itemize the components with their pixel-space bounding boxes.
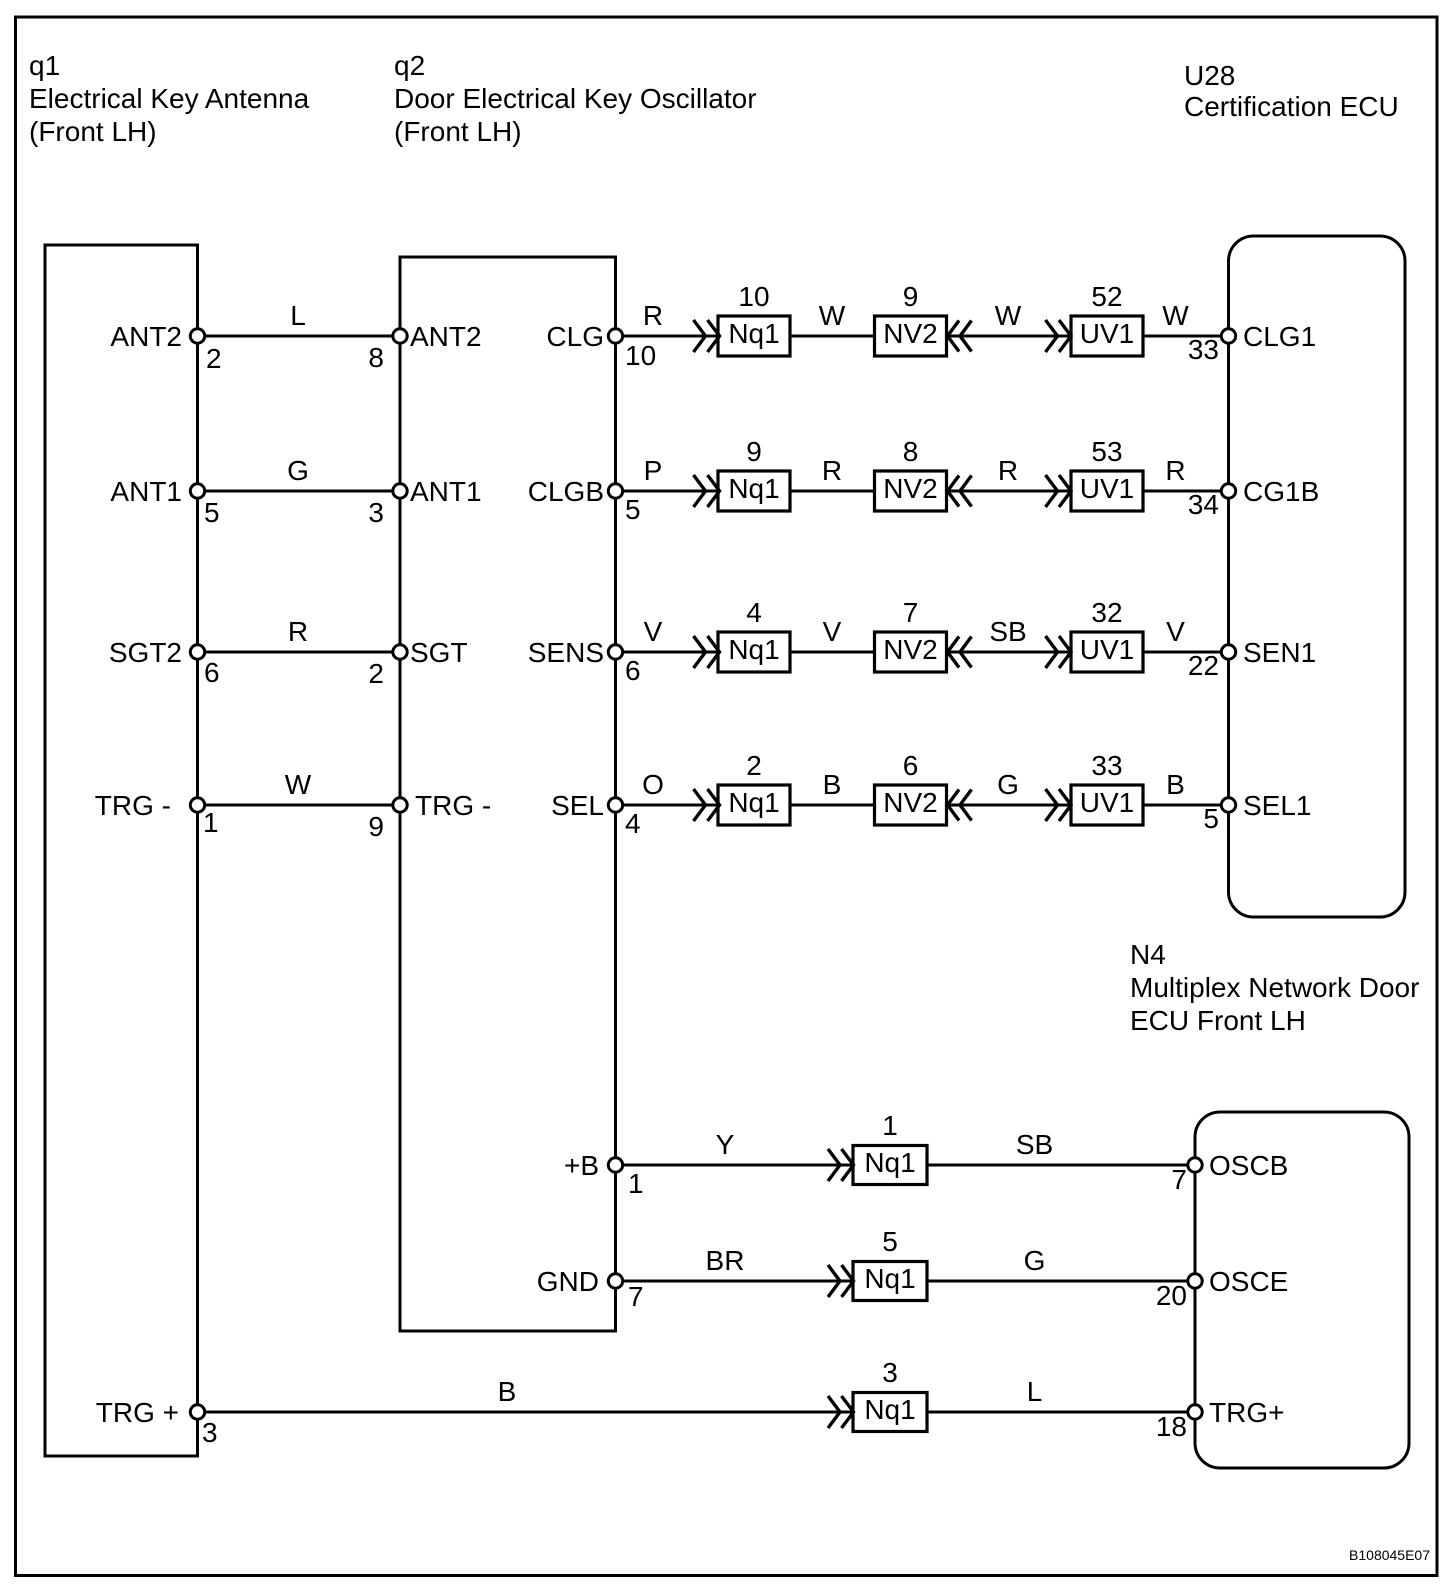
wire V q2 to splice Nq1 row3 [616, 616, 719, 652]
wire W Nq1 to NV2 row1 [790, 300, 875, 336]
splice NV2 row3 pin 7 [875, 597, 947, 672]
svg-text:B: B [1166, 769, 1185, 800]
wire R NV2 to UV1 row2 [947, 455, 1072, 491]
svg-text:18: 18 [1156, 1411, 1187, 1442]
svg-text:N4: N4 [1130, 939, 1166, 970]
svg-text:L: L [1027, 1376, 1043, 1407]
wire G Nq1 to N4 row6 [927, 1245, 1195, 1281]
svg-text:L: L [290, 300, 306, 331]
svg-text:34: 34 [1188, 489, 1219, 520]
wire W q1 to q2 row4 [198, 769, 401, 805]
svg-text:G: G [1024, 1245, 1046, 1276]
svg-text:2: 2 [368, 658, 384, 689]
connector q1 Electrical Key Antenna (Front LH) [29, 50, 310, 1456]
svg-text:ANT2: ANT2 [410, 321, 482, 352]
wire BR to splice Nq1 row6 [616, 1245, 854, 1281]
svg-text:2: 2 [206, 343, 222, 374]
svg-text:33: 33 [1091, 750, 1122, 781]
svg-text:V: V [1166, 616, 1185, 647]
svg-text:6: 6 [625, 655, 641, 686]
connector arrows into UV1 row2 [1046, 475, 1072, 507]
svg-text:5: 5 [1203, 803, 1219, 834]
wire B to splice Nq1 row7 [198, 1376, 854, 1412]
connector arrows into Nq1 row2 [694, 475, 720, 507]
splice NV2 row1 pin 9 [875, 281, 947, 356]
pin N4 TRG+ (pin 18) [1156, 1397, 1285, 1442]
svg-text:O: O [642, 769, 664, 800]
svg-text:G: G [997, 769, 1019, 800]
svg-text:BR: BR [706, 1245, 745, 1276]
svg-text:3: 3 [202, 1417, 218, 1448]
svg-text:P: P [644, 455, 663, 486]
svg-text:Electrical Key Antenna: Electrical Key Antenna [29, 83, 310, 114]
pin U28 SEL1 (pin 5) [1203, 790, 1311, 834]
svg-text:OSCB: OSCB [1209, 1150, 1288, 1181]
wire B Nq1 to NV2 row4 [790, 769, 875, 805]
svg-text:OSCE: OSCE [1209, 1266, 1288, 1297]
svg-text:6: 6 [204, 657, 220, 688]
svg-text:SGT: SGT [410, 637, 468, 668]
splice Nq1 row2 pin 9 [718, 436, 790, 511]
svg-text:20: 20 [1156, 1280, 1187, 1311]
wire R q1 to q2 row3 [198, 616, 401, 652]
svg-text:10: 10 [625, 340, 656, 371]
svg-text:4: 4 [625, 808, 641, 839]
figure code B108045E07 [1349, 1547, 1430, 1563]
svg-text:6: 6 [903, 750, 919, 781]
wire SB Nq1 to N4 row5 [927, 1129, 1195, 1165]
pin q2 TRG- (pin 9) [368, 790, 491, 842]
svg-text:SEN1: SEN1 [1243, 637, 1316, 668]
svg-text:GND: GND [537, 1266, 599, 1297]
pin q2 ANT1 (pin 3) [368, 476, 481, 528]
pin q1 TRG+ (pin 3) [96, 1397, 218, 1448]
splice UV1 row2 pin 53 [1071, 436, 1143, 511]
svg-text:UV1: UV1 [1080, 473, 1134, 504]
wire B UV1 to U28 row4 [1143, 769, 1229, 805]
svg-text:2: 2 [746, 750, 762, 781]
svg-text:SENS: SENS [528, 637, 604, 668]
ECU U28 Certification ECU [1184, 60, 1405, 917]
svg-text:TRG +: TRG + [96, 1397, 179, 1428]
svg-text:U28: U28 [1184, 60, 1235, 91]
wire V Nq1 to NV2 row3 [790, 616, 875, 652]
svg-text:CG1B: CG1B [1243, 476, 1319, 507]
svg-text:22: 22 [1188, 650, 1219, 681]
pin q1 SGT2 (pin 6) [109, 637, 220, 688]
svg-text:B: B [498, 1376, 517, 1407]
splice NV2 row4 pin 6 [875, 750, 947, 825]
svg-text:R: R [1165, 455, 1185, 486]
wire R q2 to splice Nq1 row1 [616, 300, 719, 336]
pin q2 GND (pin 7) [537, 1266, 644, 1312]
wire V UV1 to U28 row3 [1143, 616, 1229, 652]
svg-text:+B: +B [564, 1150, 599, 1181]
svg-text:7: 7 [903, 597, 919, 628]
connector arrows out of NV2 row2 [948, 476, 972, 507]
connector arrows into Nq1 row3 [694, 636, 720, 668]
svg-text:Nq1: Nq1 [728, 318, 779, 349]
svg-text:5: 5 [882, 1226, 898, 1257]
svg-text:9: 9 [746, 436, 762, 467]
svg-text:Nq1: Nq1 [728, 634, 779, 665]
svg-text:Nq1: Nq1 [864, 1263, 915, 1294]
svg-text:(Front LH): (Front LH) [394, 116, 522, 147]
svg-text:NV2: NV2 [883, 318, 937, 349]
connector arrows into Nq1 row1 [694, 320, 720, 352]
svg-text:ANT1: ANT1 [110, 476, 182, 507]
svg-text:Y: Y [716, 1129, 735, 1160]
svg-text:32: 32 [1091, 597, 1122, 628]
svg-text:9: 9 [903, 281, 919, 312]
wire P q2 to splice Nq1 row2 [616, 455, 719, 491]
pin N4 OSCE (pin 20) [1156, 1266, 1289, 1311]
wire G NV2 to UV1 row4 [947, 769, 1072, 805]
pin q1 ANT2 (pin 2) [110, 321, 221, 374]
svg-text:R: R [822, 455, 842, 486]
svg-text:q1: q1 [29, 50, 60, 81]
svg-text:TRG -: TRG - [95, 790, 171, 821]
splice UV1 row1 pin 52 [1071, 281, 1143, 356]
svg-text:UV1: UV1 [1080, 787, 1134, 818]
splice Nq1 row5 pin 1 [853, 1110, 927, 1185]
svg-text:B: B [823, 769, 842, 800]
svg-text:5: 5 [204, 497, 220, 528]
pin U28 CG1B (pin 34) [1188, 476, 1319, 520]
pin q2 SENS (pin 6) [528, 637, 641, 686]
connector arrows into UV1 row1 [1046, 320, 1072, 352]
connector arrows into Nq1 row6 [828, 1265, 854, 1297]
wire L Nq1 to N4 row7 [927, 1376, 1195, 1412]
connector arrows out of NV2 row1 [948, 321, 972, 352]
splice NV2 row2 pin 8 [875, 436, 947, 511]
svg-text:R: R [998, 455, 1018, 486]
svg-text:TRG -: TRG - [415, 790, 491, 821]
pin q2 +B (pin 1) [564, 1150, 644, 1199]
svg-text:Door Electrical Key Oscillator: Door Electrical Key Oscillator [394, 83, 757, 114]
splice Nq1 row4 pin 2 [718, 750, 790, 825]
pin q1 TRG- (pin 1) [95, 790, 219, 838]
svg-text:1: 1 [628, 1168, 644, 1199]
svg-text:W: W [1162, 300, 1189, 331]
pin q2 SEL (pin 4) [551, 790, 641, 839]
svg-text:q2: q2 [394, 50, 425, 81]
pin q2 CLG (pin 10) [546, 321, 656, 371]
svg-text:SB: SB [1016, 1129, 1053, 1160]
svg-text:8: 8 [368, 342, 384, 373]
svg-text:1: 1 [203, 807, 219, 838]
svg-text:V: V [823, 616, 842, 647]
pin q2 ANT2 (pin 8) [368, 321, 481, 373]
svg-text:9: 9 [368, 811, 384, 842]
svg-text:Multiplex Network Door: Multiplex Network Door [1130, 972, 1419, 1003]
svg-text:33: 33 [1188, 334, 1219, 365]
connector q2 Door Electrical Key Oscillator (Front LH) [394, 50, 757, 1331]
svg-text:3: 3 [882, 1357, 898, 1388]
svg-text:R: R [288, 616, 308, 647]
svg-text:53: 53 [1091, 436, 1122, 467]
wire R Nq1 to NV2 row2 [790, 455, 875, 491]
svg-text:Nq1: Nq1 [864, 1394, 915, 1425]
svg-text:TRG+: TRG+ [1209, 1397, 1284, 1428]
svg-text:52: 52 [1091, 281, 1122, 312]
splice Nq1 row7 pin 3 [853, 1357, 927, 1432]
connector arrows into UV1 row3 [1046, 636, 1072, 668]
svg-text:SGT2: SGT2 [109, 637, 182, 668]
connector arrows into Nq1 row7 [828, 1396, 854, 1428]
wire SB NV2 to UV1 row3 [947, 616, 1072, 652]
svg-text:UV1: UV1 [1080, 318, 1134, 349]
svg-text:7: 7 [1171, 1164, 1187, 1195]
pin q2 CLGB (pin 5) [528, 476, 641, 525]
svg-text:NV2: NV2 [883, 473, 937, 504]
wire L q1 to q2 row1 [198, 300, 401, 336]
ECU N4 Multiplex Network Door ECU Front LH [1130, 939, 1419, 1468]
svg-text:NV2: NV2 [883, 634, 937, 665]
svg-text:SEL: SEL [551, 790, 604, 821]
svg-text:NV2: NV2 [883, 787, 937, 818]
splice UV1 row3 pin 32 [1071, 597, 1143, 672]
svg-text:W: W [995, 300, 1022, 331]
pin q2 SGT (pin 2) [368, 637, 467, 689]
svg-text:10: 10 [738, 281, 769, 312]
svg-text:B108045E07: B108045E07 [1349, 1547, 1430, 1563]
svg-text:8: 8 [903, 436, 919, 467]
svg-text:Certification ECU: Certification ECU [1184, 91, 1399, 122]
svg-text:SB: SB [989, 616, 1026, 647]
wire W UV1 to U28 row1 [1143, 300, 1229, 336]
svg-text:ECU Front LH: ECU Front LH [1130, 1005, 1306, 1036]
svg-text:7: 7 [628, 1281, 644, 1312]
wire Y to splice Nq1 row5 [616, 1129, 854, 1165]
svg-text:ANT1: ANT1 [410, 476, 482, 507]
svg-text:CLG1: CLG1 [1243, 321, 1316, 352]
pin N4 OSCB (pin 7) [1171, 1150, 1288, 1195]
splice Nq1 row3 pin 4 [718, 597, 790, 672]
splice Nq1 row1 pin 10 [718, 281, 790, 356]
wire W NV2 to UV1 row1 [947, 300, 1072, 336]
svg-text:W: W [819, 300, 846, 331]
svg-text:ANT2: ANT2 [110, 321, 182, 352]
svg-text:Nq1: Nq1 [864, 1147, 915, 1178]
svg-text:CLG: CLG [546, 321, 604, 352]
svg-text:R: R [643, 300, 663, 331]
svg-text:CLGB: CLGB [528, 476, 604, 507]
svg-text:Nq1: Nq1 [728, 473, 779, 504]
svg-text:5: 5 [625, 494, 641, 525]
svg-text:W: W [285, 769, 312, 800]
connector arrows out of NV2 row3 [948, 637, 972, 668]
svg-text:Nq1: Nq1 [728, 787, 779, 818]
wire G q1 to q2 row2 [198, 455, 401, 491]
splice Nq1 row6 pin 5 [853, 1226, 927, 1301]
svg-text:4: 4 [746, 597, 762, 628]
pin q1 ANT1 (pin 5) [110, 476, 219, 528]
connector arrows out of NV2 row4 [948, 790, 972, 821]
pin U28 SEN1 (pin 22) [1188, 637, 1316, 681]
connector arrows into Nq1 row4 [694, 789, 720, 821]
wire O q2 to splice Nq1 row4 [616, 769, 719, 805]
connector arrows into Nq1 row5 [828, 1149, 854, 1181]
svg-text:SEL1: SEL1 [1243, 790, 1312, 821]
splice UV1 row4 pin 33 [1071, 750, 1143, 825]
pin U28 CLG1 (pin 33) [1188, 321, 1316, 365]
wire R UV1 to U28 row2 [1143, 455, 1229, 491]
svg-text:(Front LH): (Front LH) [29, 116, 157, 147]
svg-text:UV1: UV1 [1080, 634, 1134, 665]
svg-text:V: V [644, 616, 663, 647]
connector arrows into UV1 row4 [1046, 789, 1072, 821]
svg-text:1: 1 [882, 1110, 898, 1141]
svg-text:G: G [287, 455, 309, 486]
svg-text:3: 3 [368, 497, 384, 528]
